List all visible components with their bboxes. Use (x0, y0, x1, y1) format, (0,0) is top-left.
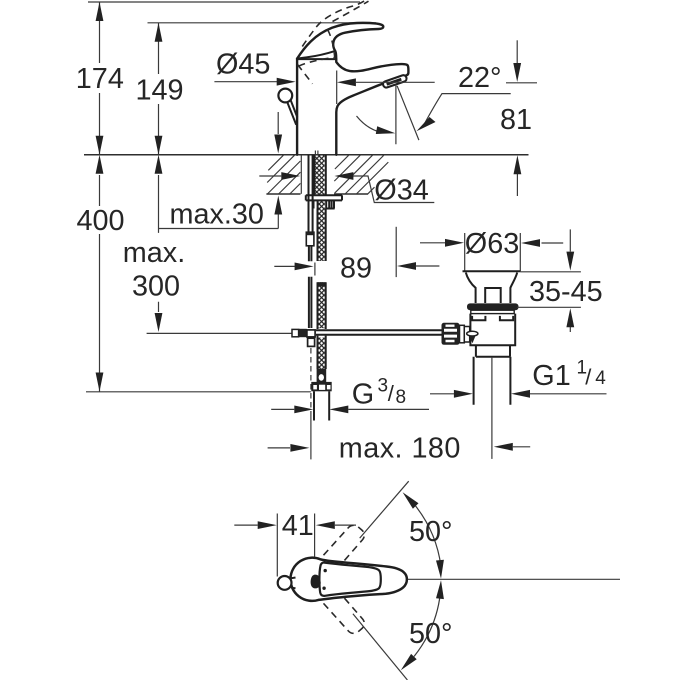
dimension 41 (234, 510, 356, 577)
plan: 50deg diagonal upper (360, 481, 409, 538)
svg-text:89: 89 (340, 253, 372, 285)
lever handle outer curve (297, 23, 383, 59)
svg-text:35-45: 35-45 (529, 276, 603, 308)
spout underside and body right edge (336, 83, 383, 154)
dimension max. 180 (268, 433, 531, 465)
svg-text:400: 400 (77, 205, 125, 237)
plan: upper swing arc with arrows (403, 492, 444, 578)
label G3/8 (352, 376, 406, 411)
flange top plate (463, 270, 521, 272)
top reference line (raised handle height) (88, 1, 360, 3)
svg-text:8: 8 (396, 387, 407, 408)
dashed hidden dome edge (299, 58, 335, 67)
plan: dashed lever rotated up 50deg (324, 525, 365, 567)
pull rod coupling (306, 232, 314, 246)
reference line at waste rod level (max300 bottom) (147, 332, 292, 334)
supply connector nut (311, 382, 331, 391)
tailpipe G1 1/4 (474, 357, 511, 405)
seal ring (467, 303, 519, 310)
deck right block hatching (334, 155, 388, 194)
dimension G3/8 pipe (271, 406, 429, 414)
bottom reference line of 400 (hose end level) (86, 391, 311, 393)
base rod passage ticks (315, 151, 318, 155)
flexible hose lower with crosshatch (318, 282, 324, 328)
label G1 1/4 (532, 358, 606, 393)
svg-text:4: 4 (595, 368, 606, 389)
pull rod lower segment (309, 246, 312, 261)
rod clamp black block (299, 329, 307, 337)
body left edge (296, 59, 298, 155)
pull rod in hole and below (309, 155, 313, 232)
dimension G1 1/4 tailpipe (430, 390, 607, 398)
lever inner contour (319, 563, 380, 596)
threaded shank with crosshatch (315, 155, 325, 195)
pull rod below break (309, 277, 312, 328)
pin end (469, 336, 475, 343)
svg-text:300: 300 (132, 271, 180, 303)
svg-text:174: 174 (76, 63, 124, 95)
svg-text:max.: max. (123, 237, 185, 269)
svg-text:22°: 22° (458, 62, 502, 94)
dimension max.300 line (155, 155, 163, 332)
svg-text:50°: 50° (409, 516, 453, 548)
pull-rod motion arrow under knob (274, 112, 282, 154)
cartridge dome parting curve (297, 51, 335, 59)
plan: horizontal axis line (399, 578, 620, 580)
deck surface line (84, 154, 529, 156)
mounting nut (314, 200, 335, 208)
faucet body outline (297, 23, 408, 155)
22deg underline hooking into stream arc (416, 94, 510, 132)
svg-text:Ø45: Ø45 (216, 49, 270, 81)
dimension 400 line (96, 155, 104, 392)
rod left end cap (292, 329, 299, 336)
body side tabs (472, 316, 513, 320)
body bottom collar (476, 345, 510, 356)
dashed hidden rod inside body (298, 65, 313, 84)
svg-text:50°: 50° (409, 618, 453, 650)
spout top edge (336, 59, 408, 82)
dimension 81 (500, 40, 532, 196)
svg-text:Ø34: Ø34 (374, 175, 428, 207)
label max.30 with underline leader (159, 196, 283, 231)
plan: pull knob circle (278, 576, 296, 590)
svg-text:G: G (352, 379, 374, 411)
svg-text:/: / (585, 365, 592, 390)
svg-text:Ø63: Ø63 (465, 228, 519, 260)
plan: indicator dots (322, 569, 327, 590)
plan: 50deg diagonal lower (353, 614, 408, 680)
deck left block hatching (266, 155, 300, 194)
joint housing (460, 325, 465, 343)
hose end connector block (317, 369, 327, 382)
G3/8 connection pipe (314, 391, 329, 420)
label D45 with leader arrow to body (214, 49, 295, 86)
rod junction housing (307, 330, 315, 337)
dimension 174 line (96, 2, 104, 155)
pivot fitting below junction (308, 338, 315, 346)
dimension 89 (274, 227, 439, 285)
svg-text:/: / (388, 381, 395, 406)
plan: dashed lever rotated down 50deg (324, 591, 365, 633)
knurled adjuster on rod (442, 323, 460, 345)
plan: logo blob on lever (311, 575, 321, 589)
stream swing arc left with arrow (357, 116, 396, 134)
svg-text:max.30: max.30 (170, 199, 264, 231)
label D34 with leaders to deck hole (259, 172, 434, 206)
dimension 149 line (155, 23, 163, 155)
svg-text:3: 3 (378, 376, 389, 397)
faucet below-deck shank parts (292, 155, 442, 459)
plan: handle silhouette (body + lever merged) (290, 558, 406, 601)
22 deg reference line at outlet level (337, 78, 537, 86)
flange dome (466, 273, 517, 304)
raised handle dashed outline (298, 1, 369, 84)
svg-text:max. 180: max. 180 (339, 433, 461, 465)
svg-text:41: 41 (282, 510, 314, 542)
waste pull knob (278, 89, 297, 125)
waste body (470, 314, 515, 346)
flexible hose upper with crosshatch (318, 200, 324, 261)
lift knob (485, 288, 501, 303)
body top band (471, 310, 514, 313)
plan: lower swing arc with arrows (401, 580, 444, 670)
81 extension line at body right edge (336, 71, 338, 105)
second reference line (handle rest height) (148, 22, 377, 24)
water stream lines (0 and 22 deg) (396, 85, 419, 145)
pop-up waste assembly (442, 271, 521, 459)
waste actuating rod (horizontal) (314, 330, 442, 336)
pivot pin ellipse (467, 331, 478, 336)
dashed pull-rod axis below pivot (310, 348, 312, 414)
dimension D63 over waste flange (420, 228, 563, 271)
dashed swing arc of grip (328, 30, 335, 59)
svg-text:G1: G1 (532, 360, 570, 392)
dimension 35-45 basin thickness (517, 229, 603, 332)
hose below junction (318, 338, 324, 369)
horseshoe mounting plate (306, 195, 342, 200)
deck hole tube wall (300, 155, 302, 194)
break tick at hose gap (89 reference) (314, 263, 316, 276)
svg-text:81: 81 (500, 104, 532, 136)
body top parting line (297, 58, 336, 60)
centerline (491, 357, 493, 459)
aerator at spout tip (382, 74, 407, 88)
svg-text:149: 149 (136, 75, 184, 107)
